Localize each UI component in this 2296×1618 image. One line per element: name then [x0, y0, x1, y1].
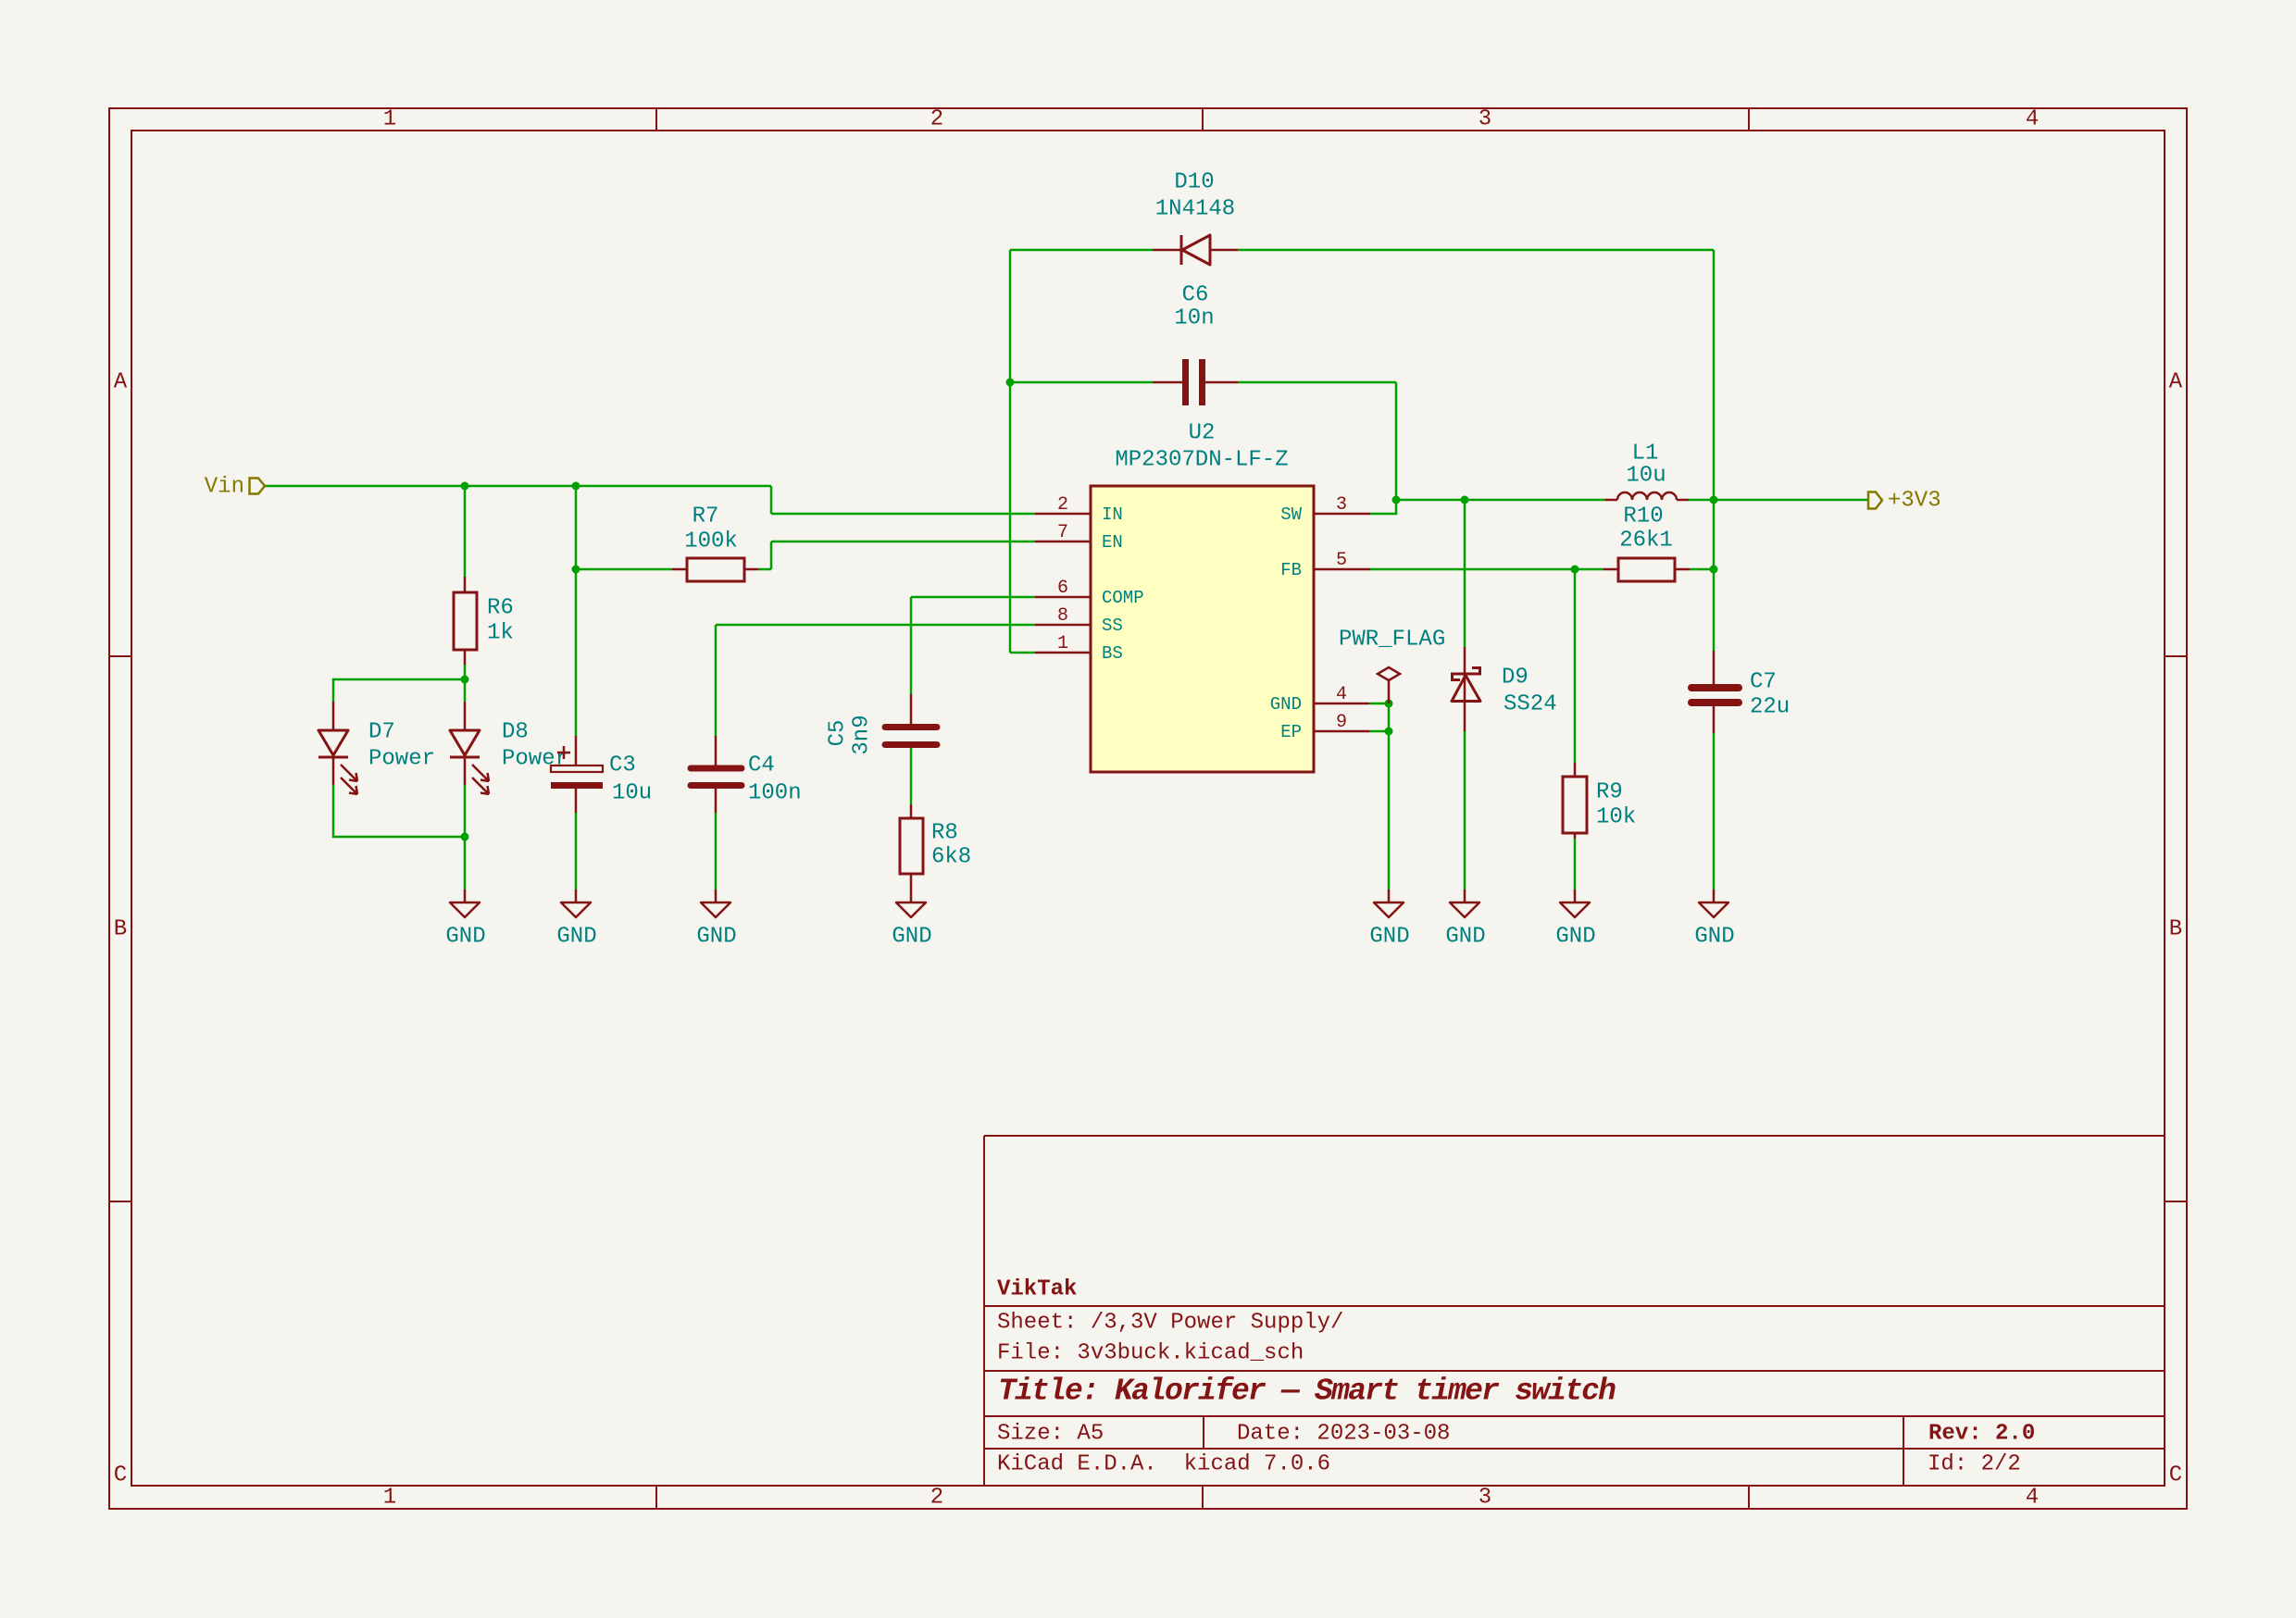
- svg-text:Sheet: /3,3V Power Supply/: Sheet: /3,3V Power Supply/: [997, 1311, 1343, 1336]
- svg-text:R7: R7: [693, 504, 719, 529]
- svg-text:B: B: [2169, 917, 2182, 942]
- svg-text:EP: EP: [1280, 722, 1302, 742]
- svg-text:Vin: Vin: [205, 475, 244, 500]
- resistor R6 1k: [454, 577, 477, 665]
- svg-text:KiCad E.D.A. kicad 7.0.6: KiCad E.D.A. kicad 7.0.6: [997, 1452, 1330, 1477]
- svg-text:100k: 100k: [684, 529, 738, 554]
- svg-text:VikTak: VikTak: [997, 1277, 1077, 1302]
- svg-text:Id: 2/2: Id: 2/2: [1928, 1452, 2021, 1477]
- svg-text:R6: R6: [487, 596, 514, 621]
- U2 pin 9 EP: [1280, 712, 1369, 742]
- U2 reference and value labels: [1115, 421, 1288, 473]
- wire Vin rail: [265, 485, 771, 488]
- svg-text:D8: D8: [502, 720, 529, 745]
- U2 pin 4 GND: [1270, 684, 1369, 715]
- wire D7 top branch: [333, 679, 465, 702]
- LED D8 Power: [450, 702, 489, 794]
- svg-text:GND: GND: [1555, 925, 1595, 950]
- svg-text:C6: C6: [1182, 283, 1209, 308]
- wire D10 rail left: [1010, 249, 1153, 252]
- svg-text:R8: R8: [931, 821, 958, 846]
- svg-text:MP2307DN-LF-Z: MP2307DN-LF-Z: [1115, 448, 1288, 473]
- svg-text:2: 2: [1057, 494, 1068, 516]
- svg-text:D9: D9: [1502, 666, 1529, 691]
- junction SW rail/D9: [1461, 496, 1469, 504]
- wire PWR_FLAG column to GND: [1388, 703, 1391, 890]
- svg-text:1: 1: [383, 1486, 396, 1511]
- svg-text:SS24: SS24: [1504, 692, 1557, 717]
- svg-text:D7: D7: [368, 720, 395, 745]
- svg-text:C4: C4: [748, 753, 775, 778]
- svg-text:22u: 22u: [1750, 695, 1790, 720]
- svg-text:9: 9: [1336, 712, 1347, 733]
- junction EP pin: [1385, 728, 1393, 736]
- wire Vin jog down to IN level: [770, 486, 773, 514]
- svg-text:L1: L1: [1632, 442, 1659, 467]
- diode D10 1N4148: [1153, 235, 1238, 265]
- U2 pin 2 IN: [1035, 494, 1123, 525]
- ground symbol (D9): [1445, 890, 1485, 950]
- svg-text:4: 4: [1336, 684, 1347, 705]
- svg-text:10k: 10k: [1596, 805, 1636, 830]
- svg-text:C3: C3: [609, 753, 636, 778]
- PWR_FLAG symbol: [1339, 628, 1445, 704]
- wire to pin SS: [716, 624, 1035, 627]
- wire D7 bottom loop: [333, 785, 465, 837]
- svg-text:FB: FB: [1280, 560, 1302, 580]
- svg-text:Power: Power: [368, 747, 435, 772]
- resistor R7 100k: [672, 558, 758, 581]
- ground symbol (PWR_FLAG): [1369, 890, 1409, 950]
- junction output node: [1710, 496, 1718, 504]
- wire D9 top: [1464, 500, 1466, 647]
- ground symbol (C4): [696, 890, 736, 950]
- ground symbol (C3): [556, 890, 596, 950]
- U2 pin 6 COMP: [1035, 578, 1144, 608]
- wire pin EP to PWR_FLAG column: [1369, 730, 1389, 733]
- U2 pin 3 SW: [1280, 494, 1370, 525]
- junction GND pin/PWR_FLAG: [1385, 700, 1393, 708]
- junction R6/D7/D8: [461, 676, 469, 684]
- capacitor C4 100n: [691, 736, 742, 813]
- svg-text:GND: GND: [1369, 925, 1409, 950]
- svg-text:C7: C7: [1750, 670, 1777, 695]
- svg-text:1: 1: [1057, 633, 1068, 654]
- svg-text:10u: 10u: [612, 781, 652, 806]
- svg-text:10n: 10n: [1174, 306, 1214, 331]
- svg-text:2: 2: [930, 1486, 943, 1511]
- svg-text:SS: SS: [1102, 616, 1123, 636]
- capacitor C5 3n9: [885, 694, 937, 745]
- svg-text:C5: C5: [826, 720, 851, 747]
- svg-text:Size: A5: Size: A5: [997, 1422, 1104, 1447]
- wire C6 left: [1010, 381, 1153, 384]
- svg-text:GND: GND: [556, 925, 596, 950]
- svg-text:Power: Power: [502, 747, 568, 772]
- svg-text:A: A: [2169, 370, 2183, 395]
- wire pin GND to PWR_FLAG column: [1369, 703, 1389, 705]
- svg-text:1N4148: 1N4148: [1155, 197, 1235, 222]
- svg-text:10u: 10u: [1626, 464, 1666, 489]
- IC U2 MP2307DN-LF-Z body: [1091, 486, 1314, 772]
- wire C3 branch drop: [575, 486, 578, 736]
- junction C3/R7: [572, 566, 580, 574]
- svg-text:D10: D10: [1174, 170, 1214, 195]
- wire FB: [1370, 568, 1603, 571]
- wire BS vertical riser: [1009, 250, 1012, 653]
- U2 pin 1 BS: [1035, 633, 1123, 664]
- wire D8 anode: [464, 679, 467, 702]
- wire D10 right vertical: [1713, 250, 1716, 500]
- inductor L1 10u: [1605, 492, 1689, 500]
- U2 pin 8 SS: [1035, 605, 1123, 636]
- wire to pin EN: [771, 541, 1035, 543]
- TITLEBLOCK: [984, 1136, 2165, 1486]
- svg-text:GND: GND: [1270, 694, 1302, 715]
- svg-text:Rev: 2.0: Rev: 2.0: [1928, 1422, 2035, 1447]
- resistor R10 26k1: [1603, 558, 1690, 581]
- svg-text:GND: GND: [696, 925, 736, 950]
- svg-text:8: 8: [1057, 605, 1068, 627]
- wire D9 bottom to GND: [1464, 731, 1466, 890]
- junction D7/D8 bottom: [461, 833, 469, 841]
- wire to pin BS: [1010, 652, 1035, 654]
- wire R9 bottom to GND: [1574, 839, 1577, 890]
- svg-text:IN: IN: [1102, 504, 1123, 525]
- svg-text:Title: Kalorifer — Smart timer: Title: Kalorifer — Smart timer switch: [998, 1375, 1616, 1409]
- svg-text:6k8: 6k8: [931, 845, 971, 870]
- wire to +3V3 port: [1714, 499, 1868, 502]
- wire R7 jog up to EN level: [770, 541, 773, 569]
- wire C7 bottom to GND: [1713, 733, 1716, 890]
- capacitor C6 10n: [1153, 359, 1238, 405]
- wire to pin IN: [771, 513, 1035, 516]
- svg-text:100n: 100n: [748, 781, 802, 806]
- wire D10 rail right: [1238, 249, 1714, 252]
- wire C5 branch drop: [910, 597, 913, 694]
- svg-text:R10: R10: [1623, 504, 1663, 529]
- polarized capacitor C3 10u: [551, 736, 603, 813]
- svg-text:6: 6: [1057, 578, 1068, 599]
- wire C6 drop to SW rail: [1395, 382, 1398, 500]
- ground symbol (R9): [1555, 890, 1595, 950]
- ground symbol (C7): [1694, 890, 1734, 950]
- svg-text:3n9: 3n9: [850, 715, 875, 754]
- svg-text:B: B: [114, 917, 127, 942]
- wire R6 to LED junction: [464, 665, 467, 679]
- junction FB/C7: [1710, 566, 1718, 574]
- wire SW rail: [1396, 499, 1605, 502]
- svg-text:BS: BS: [1102, 643, 1123, 664]
- svg-text:7: 7: [1057, 522, 1068, 543]
- svg-text:EN: EN: [1102, 532, 1123, 553]
- wire C6 right: [1238, 381, 1396, 384]
- svg-text:26k1: 26k1: [1619, 529, 1673, 554]
- svg-text:1: 1: [383, 107, 396, 132]
- svg-text:3: 3: [1479, 107, 1491, 132]
- svg-text:SW: SW: [1280, 504, 1302, 525]
- svg-text:A: A: [114, 370, 128, 395]
- junction FB/R9: [1571, 566, 1579, 574]
- svg-text:+3V3: +3V3: [1888, 489, 1941, 514]
- svg-text:GND: GND: [1694, 925, 1734, 950]
- svg-text:C: C: [2169, 1463, 2182, 1488]
- LED D7 Power: [318, 702, 357, 794]
- wire output junction down to FB junction: [1713, 500, 1716, 569]
- wire R9 branch drop: [1574, 569, 1577, 763]
- svg-text:GND: GND: [892, 925, 931, 950]
- wire LED bottom to GND: [464, 837, 467, 890]
- wire R10 right: [1690, 568, 1714, 571]
- junction Vin/C3: [572, 482, 580, 491]
- svg-text:4: 4: [2026, 107, 2039, 132]
- wire C4 branch drop: [715, 625, 717, 736]
- junction Vin/R6: [461, 482, 469, 491]
- capacitor C7 22u: [1691, 651, 1739, 733]
- svg-text:3: 3: [1336, 494, 1347, 516]
- junction SW rail/C6: [1392, 496, 1401, 504]
- svg-text:GND: GND: [445, 925, 485, 950]
- schottky diode D9 SS24: [1452, 647, 1480, 731]
- svg-text:3: 3: [1479, 1486, 1491, 1511]
- wire C3 bottom to GND: [575, 813, 578, 890]
- svg-text:4: 4: [2026, 1486, 2039, 1511]
- svg-text:1k: 1k: [487, 621, 514, 646]
- wire SW pin jog: [1370, 500, 1396, 514]
- U2 pin 5 FB: [1280, 550, 1370, 580]
- junction BS/C6: [1006, 379, 1015, 387]
- svg-text:2: 2: [930, 107, 943, 132]
- ground symbol (LED chain): [445, 890, 485, 950]
- wire C4 bottom to GND: [715, 813, 717, 890]
- svg-text:Date: 2023-03-08: Date: 2023-03-08: [1237, 1422, 1450, 1447]
- wire L1 to output junction: [1689, 499, 1714, 502]
- svg-text:PWR_FLAG: PWR_FLAG: [1339, 628, 1445, 653]
- svg-text:File: 3v3buck.kicad_sch: File: 3v3buck.kicad_sch: [997, 1341, 1304, 1366]
- svg-text:R9: R9: [1596, 780, 1623, 805]
- resistor R8 6k8: [900, 804, 923, 902]
- wire R7 right: [758, 568, 771, 571]
- svg-text:U2: U2: [1189, 421, 1216, 446]
- wire C5 bottom to R8: [910, 748, 913, 804]
- node +3V3 hierarchical label: [1868, 489, 1941, 514]
- svg-text:5: 5: [1336, 550, 1347, 571]
- wire D8 cathode down: [464, 785, 467, 837]
- svg-text:GND: GND: [1445, 925, 1485, 950]
- resistor R9 10k: [1563, 763, 1587, 839]
- wire R7 left: [576, 568, 672, 571]
- svg-text:C: C: [114, 1463, 127, 1488]
- wire FB junction down to C7: [1713, 569, 1716, 651]
- wire to pin COMP: [911, 596, 1035, 599]
- node Vin hierarchical label: [205, 475, 265, 500]
- ground symbol (R8): [892, 902, 931, 950]
- svg-text:COMP: COMP: [1102, 588, 1144, 608]
- wire R6 branch drop: [464, 486, 467, 577]
- U2 pin 7 EN: [1035, 522, 1123, 553]
